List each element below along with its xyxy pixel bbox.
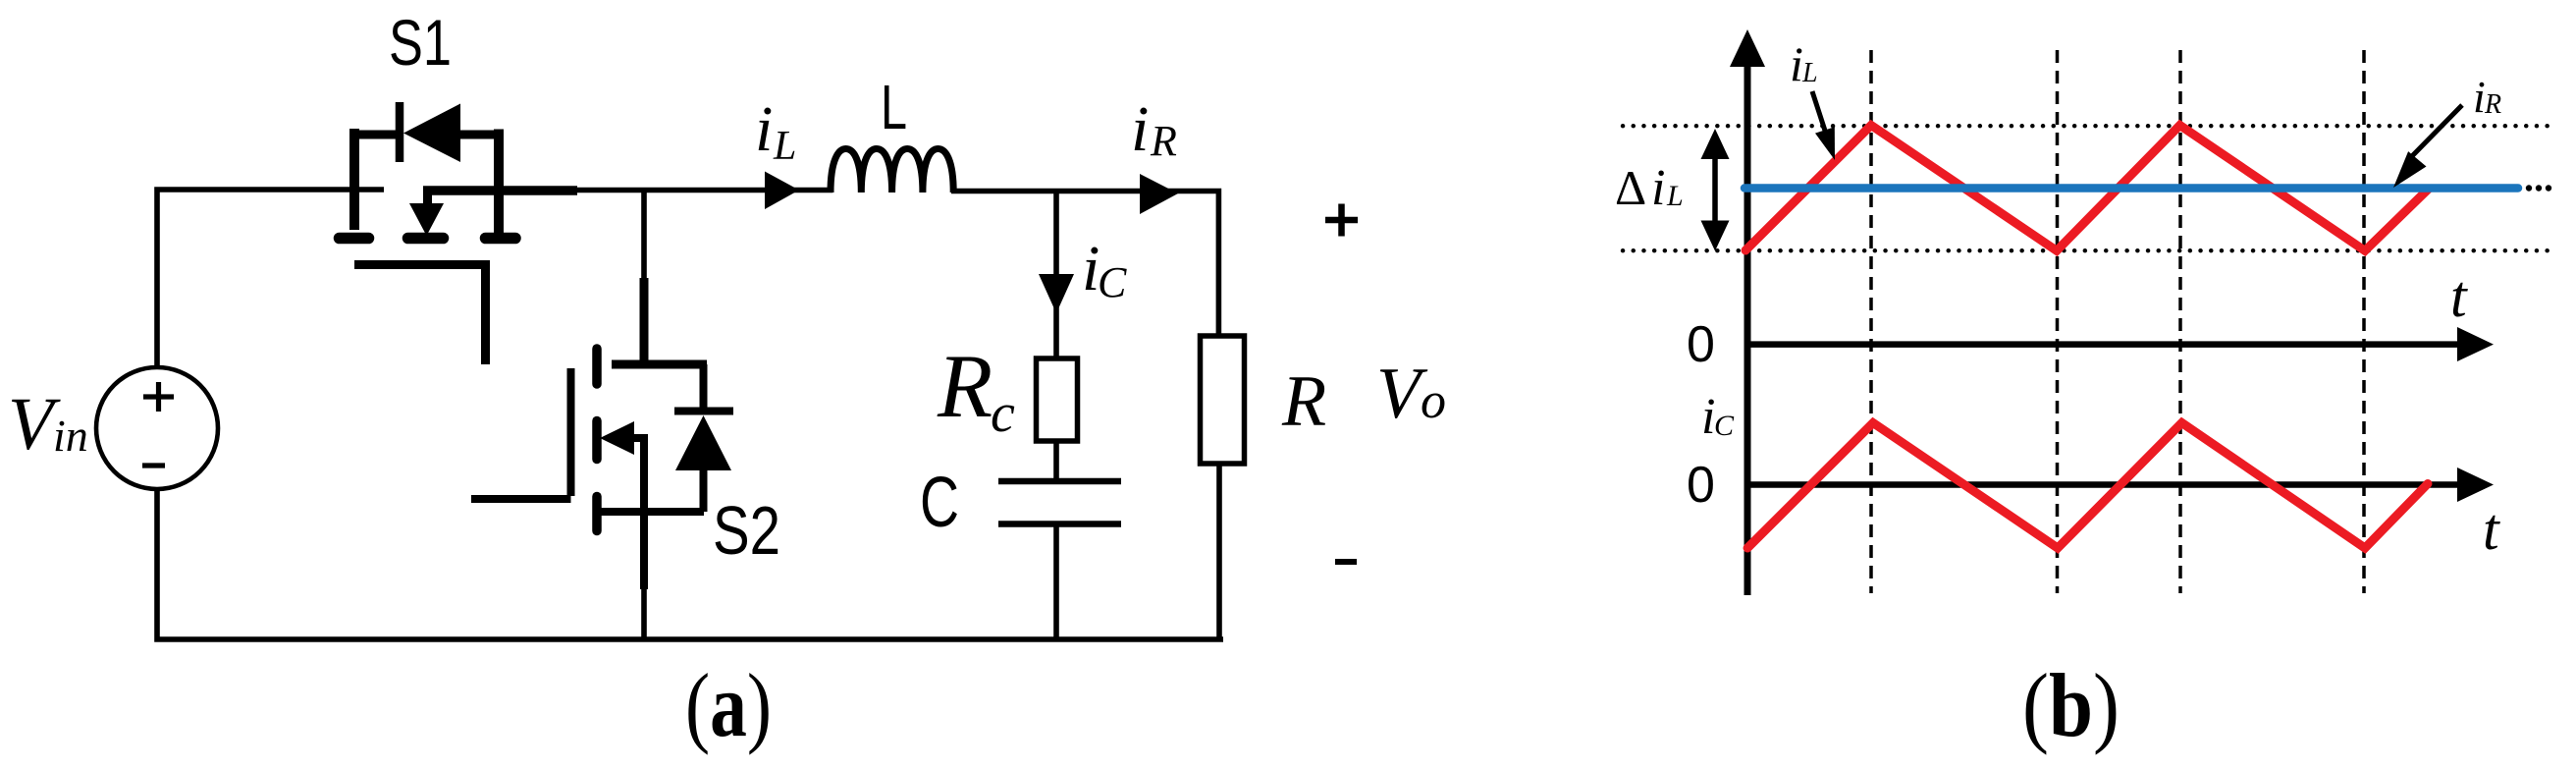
label Rc [937,336,1015,444]
delta iL double arrow [1712,155,1718,224]
wire S2 source to bottom rail (thin part) [641,587,647,639]
wire capacitor to bottom rail [1053,525,1059,639]
svg-text:S1: S1 [389,6,452,79]
capacitor C plates [998,481,1121,524]
minus sign inside Vin [142,463,165,467]
svg-text:in: in [53,411,88,461]
wire R to bottom rail [1216,462,1222,639]
svg-text:i: i [1651,160,1665,216]
svg-text:t: t [2450,264,2468,329]
resistor R [1201,336,1245,464]
inductor L [831,149,953,193]
transistor S1 (high-side MOSFET, horizontal) [340,102,578,364]
svg-text:i: i [1790,36,1803,91]
plus sign inside Vin [143,382,174,412]
voltage source Vin circle [96,367,218,489]
transistor S2 (low-side MOSFET, vertical) [471,349,707,589]
svg-text:R: R [2484,89,2501,120]
y axis [1744,63,1751,595]
svg-text:o: o [1421,373,1446,429]
dotted horizontal line lower [1623,248,2552,252]
svg-text:R: R [1281,361,1326,442]
output minus sign [1335,559,1357,565]
red inductor current waveform [1745,126,2429,251]
S1 body arrow head [409,203,444,236]
blue line trailing dots [2526,185,2551,191]
current arrow iL [765,172,799,210]
label iR annotation [2473,72,2501,122]
svg-text:C: C [1714,410,1735,442]
wire node to S2 drain (thick part) [640,278,649,364]
svg-text:(b): (b) [2022,655,2120,755]
iR annotation arrow [2410,105,2462,158]
red capacitor current waveform [1747,423,2428,549]
S2 body diode [674,364,733,512]
svg-text:i: i [1131,93,1149,165]
wire bottom rail [157,489,1223,639]
svg-text:i: i [2473,72,2486,122]
svg-text:L: L [1801,58,1818,88]
wire node to S2 drain (thin part) [641,190,647,280]
svg-text:0: 0 [1687,457,1715,514]
svg-text:S2: S2 [713,492,780,569]
current arrow iR [1140,174,1178,214]
label iR [1131,93,1177,165]
svg-text:(a): (a) [685,655,772,755]
wire inductor to R branch corner [951,192,1218,339]
x axis top [1747,341,2460,348]
blue line iR [1744,184,2518,192]
svg-text:C: C [920,464,959,542]
S1 body diode triangle [403,104,460,163]
dashed vertical line 4 [2362,50,2366,593]
svg-text:C: C [1098,258,1127,306]
wire top-left from Vin to S1 [157,190,384,367]
svg-text:Δ: Δ [1615,160,1646,215]
svg-text:R: R [1150,117,1177,165]
svg-text:t: t [2483,497,2500,562]
S2 body arrow head [600,421,634,455]
svg-text:L: L [1666,180,1684,212]
current arrow iC [1039,274,1074,313]
wire node to capacitor branch [1053,191,1059,360]
svg-text:L: L [881,72,907,142]
label iC axis [1701,389,1735,445]
label Vo [1376,354,1446,434]
x axis bottom [1747,481,2460,488]
svg-text:R: R [937,336,993,436]
dashed vertical line 2 [2056,50,2060,593]
label iC [1082,233,1127,306]
svg-text:L: L [773,124,796,169]
wire Rc to capacitor [1053,438,1059,479]
wire S1 to inductor [575,188,832,193]
dashed vertical line 3 [2178,50,2182,593]
svg-text:0: 0 [1687,316,1715,373]
dashed vertical line 1 [1869,50,1873,593]
label iL annotation [1790,36,1818,91]
svg-text:c: c [991,383,1015,444]
label delta iL [1615,160,1684,216]
label Vin [8,383,88,466]
svg-text:i: i [755,93,773,165]
resistor Rc [1037,358,1078,441]
iL annotation arrow [1812,91,1825,131]
label iL [755,93,796,169]
dotted horizontal line upper [1623,124,2552,128]
output plus sign [1325,204,1358,237]
